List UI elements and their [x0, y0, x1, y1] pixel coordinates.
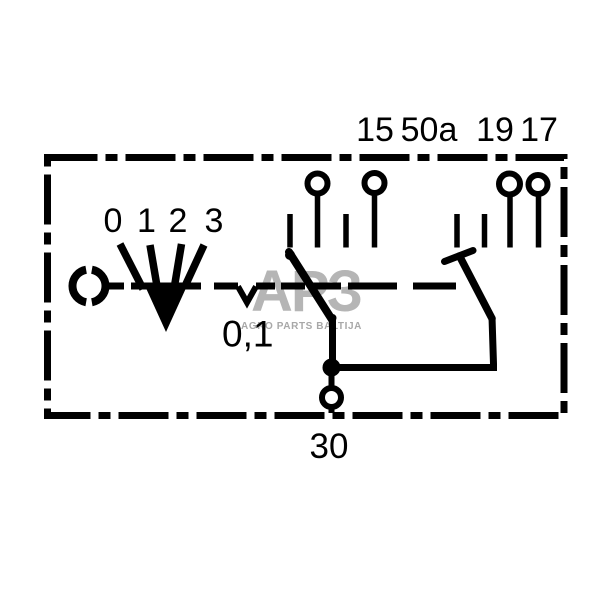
- right switch arm: [460, 256, 493, 319]
- travel line dash d: [256, 283, 275, 290]
- svg-text:2: 2: [169, 202, 188, 240]
- fixed contact stud 4: [482, 214, 488, 248]
- svg-text:0,1: 0,1: [222, 314, 273, 355]
- wiper arrow head: [146, 287, 187, 332]
- terminal ring 30: [322, 388, 341, 407]
- svg-text:3: 3: [205, 202, 224, 240]
- wire right arm down: [338, 317, 494, 368]
- svg-text:50a: 50a: [401, 111, 458, 149]
- left switch arm pivot: [285, 250, 295, 260]
- watermark APB logo: [241, 259, 362, 332]
- right switch arm T head: [445, 251, 474, 262]
- svg-text:19: 19: [476, 111, 514, 149]
- svg-text:17: 17: [520, 111, 558, 149]
- fixed contact stud 1: [287, 214, 293, 248]
- travel line dash f: [312, 283, 341, 290]
- terminal ring T-C (19): [499, 174, 520, 195]
- contact notch 0,1: [238, 287, 256, 303]
- left switch arm: [289, 252, 333, 318]
- fixed contact stud 3: [454, 214, 460, 248]
- position ray 2: [174, 244, 182, 289]
- pin stem T-C: [507, 195, 513, 248]
- pin stem T-A: [315, 194, 321, 248]
- position ray 3: [186, 245, 204, 284]
- travel line dash a: [131, 283, 146, 290]
- position ray 1: [150, 245, 158, 289]
- position ray 0: [120, 244, 143, 289]
- travel line dash b: [146, 283, 201, 290]
- travel line dash g: [348, 283, 397, 290]
- wire junction to terminal 30: [329, 372, 335, 387]
- pin stem T-B: [372, 194, 378, 248]
- svg-text:30: 30: [310, 427, 349, 466]
- terminal ring T-D (17): [529, 175, 548, 194]
- svg-text:0: 0: [104, 202, 123, 240]
- stub terminal 30 to border: [329, 407, 335, 413]
- svg-text:1: 1: [137, 202, 156, 240]
- rotary knob ring: [72, 270, 105, 303]
- pin stem T-D: [536, 194, 542, 248]
- terminal ring T-B (50a): [365, 173, 385, 193]
- travel line dash c: [214, 283, 238, 290]
- travel line dash e: [281, 283, 305, 290]
- junction dot: [323, 359, 341, 377]
- wire arm to junction: [329, 316, 336, 362]
- wire ring to travel line: [105, 283, 125, 290]
- terminal ring T-A (under 15): [308, 174, 328, 194]
- travel line dash h: [413, 283, 456, 290]
- fixed contact stud 2: [343, 214, 349, 248]
- svg-text:15: 15: [356, 111, 394, 149]
- enclosure border (dash-dot box): [48, 158, 565, 416]
